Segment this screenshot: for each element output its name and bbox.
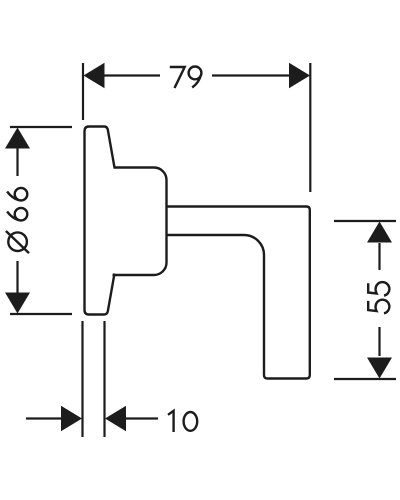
dim 10: dimension line left tail: [26, 417, 61, 419]
dim 10: right arrowhead (points left): [105, 406, 126, 432]
dim 55: top extension line: [334, 220, 396, 222]
digit 5: [368, 300, 389, 314]
digit 6: [7, 188, 27, 201]
dim diameter 66: down arrowhead: [5, 293, 30, 314]
digit 6: [7, 208, 27, 221]
label diameter 66 (left, rotated): [6, 188, 29, 253]
dim 55: up arrowhead: [367, 222, 392, 243]
dim 79: left extension line: [82, 63, 84, 120]
dim diameter 66: dimension line: [16, 148, 18, 293]
lever handle: [167, 207, 310, 379]
label 55 (right, rotated): [368, 282, 389, 313]
digit 1: [168, 411, 174, 432]
dim 79: dimension line: [104, 74, 289, 76]
digit glyph strokes (Futura-like): [6, 67, 389, 433]
dim diameter 66: bottom extension line: [10, 313, 72, 315]
dim 79: right arrowhead: [289, 63, 310, 89]
dim 10: right extension line: [103, 321, 105, 437]
dim diameter 66: top extension line: [10, 126, 72, 128]
dim 79: left arrowhead: [84, 63, 105, 89]
dim 55: dimension line: [378, 243, 380, 356]
dim diameter 66: up arrowhead: [5, 128, 30, 149]
dim 10: left arrowhead (points right): [61, 406, 82, 432]
escutcheon plate (side profile): [85, 127, 115, 315]
handle hub: [113, 168, 167, 276]
dim 10: dimension line right tail: [126, 417, 158, 419]
digit 5: [368, 282, 389, 296]
label 79 (top): [170, 67, 202, 89]
digit 7: [170, 67, 185, 88]
digit 0: [184, 412, 198, 431]
label 10 (bottom): [168, 411, 197, 432]
dim 55: down arrowhead: [367, 358, 392, 379]
digit 9: [189, 67, 202, 88]
dim 79: right extension line: [309, 63, 311, 192]
dim 55: bottom extension line: [334, 378, 396, 380]
glyph diameter sign: [6, 231, 29, 253]
dim 10: left extension line: [81, 321, 83, 437]
